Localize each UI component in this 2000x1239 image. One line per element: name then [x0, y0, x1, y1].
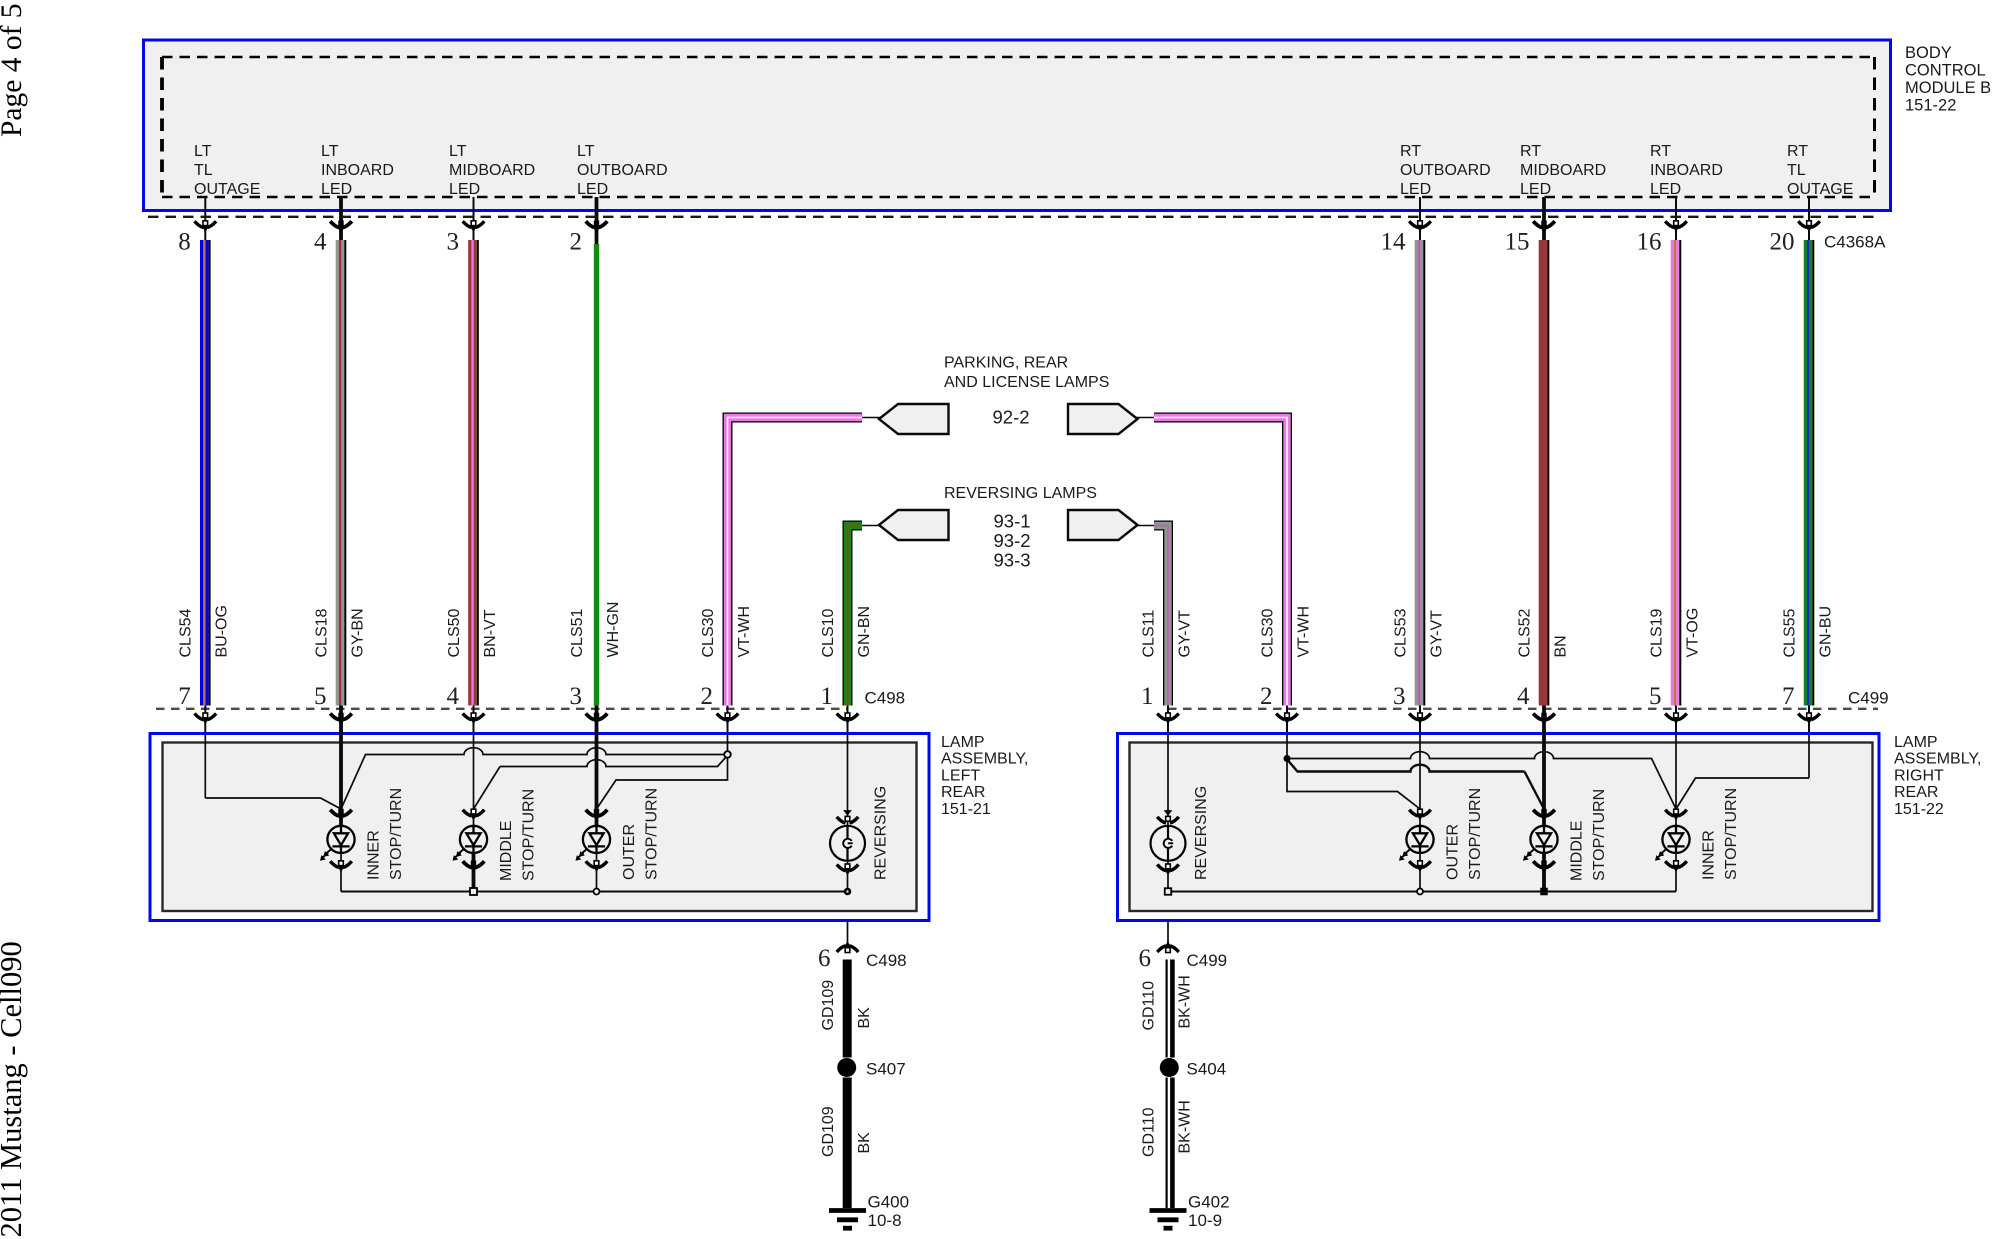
reversing feed (right) [1167, 734, 1169, 826]
connector arrow into lamp assembly x=596.5 [586, 714, 608, 720]
ground bus (right) [1168, 891, 1676, 893]
svg-text:LEFT: LEFT [941, 767, 980, 784]
svg-text:G400: G400 [868, 1193, 910, 1212]
connector arrow below outer LED (right) [1409, 861, 1431, 867]
svg-text:VT-WH: VT-WH [1295, 606, 1312, 658]
svg-text:1: 1 [1141, 683, 1154, 710]
connector arrow into lamp assembly x=1544 [1533, 714, 1555, 720]
ground bus (left) [341, 891, 848, 893]
node middle LED on bus (right) [1540, 888, 1548, 896]
connector arrow pin 6 C498 [837, 946, 859, 952]
svg-text:ASSEMBLY,: ASSEMBLY, [941, 751, 1028, 768]
wire from lamp box to pin 6 C498 [847, 921, 849, 947]
node middle LED on bus (left) [470, 888, 477, 895]
wire CLS10 GN-BN (left, to reversing lamps) [848, 526, 863, 706]
wire lead from BCM at x=596.5 [595, 197, 599, 245]
svg-text:93-3: 93-3 [994, 550, 1031, 571]
outer stop/turn feed (right) [1419, 734, 1421, 826]
svg-text:BN: BN [1552, 635, 1569, 657]
connector arrow into lamp assembly x=1168 [1157, 714, 1179, 720]
svg-text:C4368A: C4368A [1824, 233, 1886, 252]
svg-text:G402: G402 [1188, 1193, 1230, 1212]
connector arrow at inner LED (left) [330, 810, 352, 816]
svg-text:BK: BK [856, 1007, 873, 1029]
svg-text:CLS30: CLS30 [1259, 608, 1276, 657]
parking bus B to middle LED (left) [500, 757, 727, 767]
wire CLS30 VT-WH (right, to parking lamps) [1154, 418, 1287, 706]
svg-text:MIDDLE: MIDDLE [1569, 821, 1586, 881]
svg-text:GD110: GD110 [1140, 981, 1157, 1031]
node: parking feed junction (left) [724, 751, 731, 758]
svg-text:LED: LED [1520, 181, 1551, 198]
svg-text:ASSEMBLY,: ASSEMBLY, [1894, 751, 1981, 768]
connector arrow at outer LED (right) [1409, 810, 1431, 816]
svg-text:STOP/TURN: STOP/TURN [644, 788, 661, 880]
lamp assembly left rear inner box [163, 743, 917, 912]
wire CLS19 VT-OG [1671, 240, 1682, 706]
svg-text:CLS30: CLS30 [700, 608, 717, 657]
connector arrow below reversing bulb (left) [837, 865, 859, 871]
connector arrow into lamp assembly x=847.5 [837, 714, 859, 720]
wire lead into lamp assembly x=1544 [1542, 706, 1546, 735]
wire CLS52 BN [1539, 240, 1550, 706]
svg-text:OUTER: OUTER [621, 824, 638, 880]
wire link to off-page connector 92-2 right [1136, 417, 1154, 419]
connector arrow at BCM pin x=1544 [1533, 221, 1555, 227]
lamp assembly right rear inner box [1130, 743, 1873, 912]
reversing feed (left) [847, 734, 849, 826]
svg-text:CLS11: CLS11 [1140, 610, 1157, 658]
svg-text:151-22: 151-22 [1894, 801, 1944, 818]
svg-text:2: 2 [570, 229, 583, 256]
svg-text:GN-BN: GN-BN [856, 606, 873, 658]
svg-text:OUTBOARD: OUTBOARD [1400, 162, 1491, 179]
svg-text:4: 4 [1517, 683, 1530, 710]
wire lead into lamp assembly x=1420 [1419, 706, 1421, 735]
svg-text:93-2: 93-2 [994, 530, 1031, 551]
middle stop/turn feed (right) [1542, 730, 1546, 826]
wire CLS54 BU-OG [200, 240, 211, 706]
splice S404 [1160, 1058, 1179, 1077]
LED inner stop/turn (left) [321, 826, 355, 859]
svg-text:RT: RT [1520, 143, 1541, 160]
svg-text:Page 4 of 5: Page 4 of 5 [0, 3, 28, 137]
wire lead into lamp assembly x=847.5 [847, 706, 849, 735]
LED middle stop/turn (left) [454, 826, 488, 859]
inner LED cathode to bus (left) [340, 853, 342, 892]
svg-text:REVERSING: REVERSING [873, 786, 890, 880]
svg-text:LED: LED [1400, 181, 1431, 198]
svg-text:C498: C498 [866, 951, 907, 970]
connector arrow into lamp assembly x=341 [330, 714, 352, 720]
svg-text:RIGHT: RIGHT [1894, 767, 1944, 784]
svg-text:LED: LED [321, 181, 352, 198]
svg-text:BN-VT: BN-VT [482, 609, 499, 657]
svg-text:5: 5 [1649, 683, 1662, 710]
svg-text:LED: LED [449, 181, 480, 198]
wire CLS11 GY-VT (right, to reversing lamps) [1154, 526, 1168, 706]
wire link to off-page connector 93 right [1136, 525, 1154, 527]
connector arrow into lamp assembly x=727.5 [717, 714, 739, 720]
svg-text:BU-OG: BU-OG [214, 605, 231, 657]
svg-text:C499: C499 [1187, 951, 1228, 970]
svg-text:OUTAGE: OUTAGE [194, 181, 260, 198]
svg-text:OUTAGE: OUTAGE [1787, 181, 1853, 198]
inner LED cathode to bus (right) [1675, 853, 1677, 892]
svg-text:LT: LT [577, 143, 595, 160]
sense line to inner LED (right) [1676, 778, 1809, 809]
LED outer stop/turn (right) [1400, 826, 1434, 859]
svg-text:VT-OG: VT-OG [1684, 608, 1701, 658]
svg-text:GY-BN: GY-BN [349, 608, 366, 657]
connector arrow below inner LED (left) [330, 861, 352, 867]
wire lead into lamp assembly x=1168 [1167, 706, 1169, 735]
svg-text:151-22: 151-22 [1905, 97, 1956, 115]
wire CLS50 BN-VT [468, 240, 479, 706]
connector arrow above reversing bulb (right) [1164, 810, 1173, 816]
svg-text:RT: RT [1650, 143, 1671, 160]
svg-text:STOP/TURN: STOP/TURN [1723, 788, 1740, 880]
middle LED cathode to bus (right) [1542, 853, 1546, 892]
svg-text:CLS54: CLS54 [178, 608, 195, 657]
wire CLS51 WH-GN [594, 244, 599, 706]
svg-text:INBOARD: INBOARD [321, 162, 394, 179]
parking bus C to outer LED (right) [1287, 761, 1420, 809]
sense line to inner LED (left) [205, 798, 341, 809]
svg-text:LT: LT [194, 143, 212, 160]
bus B diagonal to middle LED (left) [474, 767, 501, 810]
BCM inner dashed border [162, 57, 1876, 197]
wire lead from BCM at x=1809 [1808, 197, 1810, 240]
wire lead into lamp assembly x=341 [339, 706, 343, 735]
svg-text:OUTBOARD: OUTBOARD [577, 162, 668, 179]
svg-text:VT-WH: VT-WH [736, 606, 753, 658]
svg-text:GD110: GD110 [1140, 1107, 1157, 1157]
wire lead from BCM at x=1544 [1542, 197, 1546, 245]
connector arrow into lamp assembly x=1809 [1798, 714, 1820, 720]
node outer LED on bus (left) [594, 889, 600, 895]
svg-text:MIDDLE: MIDDLE [498, 821, 515, 881]
wire GD109 BK (upper) [843, 960, 852, 1058]
LED middle stop/turn (right) [1524, 826, 1558, 859]
svg-text:CLS55: CLS55 [1781, 608, 1798, 657]
svg-text:TL: TL [194, 162, 213, 179]
svg-text:INNER: INNER [1701, 830, 1718, 880]
svg-text:LAMP: LAMP [941, 734, 985, 751]
node reversing on bus (left) [844, 888, 852, 896]
svg-text:STOP/TURN: STOP/TURN [521, 789, 538, 881]
connector arrow at BCM pin x=596.5 [586, 221, 608, 227]
svg-text:PARKING, REAR: PARKING, REAR [944, 355, 1068, 372]
svg-text:STOP/TURN: STOP/TURN [388, 788, 405, 880]
wire from lamp box to pin 6 C499 [1167, 921, 1169, 947]
LED outer stop/turn (left) [577, 826, 611, 859]
svg-text:CLS10: CLS10 [820, 608, 837, 657]
LED inner stop/turn (right) [1656, 826, 1690, 859]
svg-text:REAR: REAR [1894, 784, 1938, 801]
svg-text:C498: C498 [865, 689, 906, 708]
svg-text:3: 3 [1393, 683, 1406, 710]
svg-text:CLS18: CLS18 [313, 608, 330, 657]
wire lead from BCM at x=1420 [1419, 197, 1421, 240]
svg-text:CLS51: CLS51 [569, 608, 586, 657]
svg-text:RT: RT [1787, 143, 1808, 160]
connector arrow at BCM pin x=473.5 [463, 221, 485, 227]
svg-text:INBOARD: INBOARD [1650, 162, 1723, 179]
connector arrow at BCM pin x=1809 [1798, 221, 1820, 227]
svg-text:93-1: 93-1 [994, 511, 1031, 532]
svg-text:5: 5 [314, 683, 327, 710]
connector arrow below inner LED (right) [1665, 861, 1687, 867]
svg-text:CLS52: CLS52 [1516, 608, 1533, 657]
node outer LED on bus (right) [1417, 889, 1423, 895]
connector arrow into lamp assembly x=473.5 [463, 714, 485, 720]
svg-text:STOP/TURN: STOP/TURN [1467, 788, 1484, 880]
svg-text:REVERSING LAMPS: REVERSING LAMPS [944, 485, 1097, 502]
svg-text:BK-WH: BK-WH [1176, 1100, 1193, 1153]
svg-text:RT: RT [1400, 143, 1421, 160]
svg-text:S404: S404 [1187, 1060, 1227, 1079]
ground symbol G400 [829, 1211, 866, 1229]
svg-text:2: 2 [1260, 683, 1273, 710]
svg-text:20: 20 [1770, 229, 1795, 256]
node reversing on bus (right) [1165, 888, 1172, 895]
connector arrow below middle LED (right) [1533, 861, 1555, 867]
outer LED cathode to bus (left) [596, 853, 598, 892]
wire lead into lamp assembly x=1809 [1808, 706, 1810, 735]
svg-text:6: 6 [1139, 945, 1152, 972]
inner stop/turn feed (left) [339, 730, 343, 826]
svg-text:STOP/TURN: STOP/TURN [1591, 789, 1608, 881]
svg-text:TL: TL [1787, 162, 1806, 179]
svg-text:REAR: REAR [941, 784, 985, 801]
wire lead from BCM at x=205.3 [204, 197, 206, 240]
wire CLS30 VT-WH (left, to parking lamps) [728, 418, 863, 706]
parking bus A to inner LED (left) [341, 748, 726, 809]
connector C498 dashed line [156, 708, 848, 710]
TL outage sense wire (left) [204, 735, 206, 798]
svg-text:92-2: 92-2 [993, 406, 1030, 427]
svg-text:CLS19: CLS19 [1648, 608, 1665, 657]
svg-text:1: 1 [821, 683, 834, 710]
svg-text:REVERSING: REVERSING [1193, 786, 1210, 880]
connector arrow below outer LED (left) [586, 861, 608, 867]
svg-text:2011 Mustang - Cell090: 2011 Mustang - Cell090 [0, 941, 28, 1237]
connector arrow at middle LED (right) [1533, 810, 1555, 816]
svg-text:OUTER: OUTER [1445, 824, 1462, 880]
connector arrow at inner LED (right) [1665, 810, 1687, 816]
bus B diagonal to middle LED (right) [1525, 772, 1545, 810]
wire CLS53 GY-VT [1415, 240, 1426, 706]
svg-text:LT: LT [449, 143, 467, 160]
wire link to off-page connector 93 left [862, 525, 880, 527]
off-page connector pentagon (parking, left) [879, 404, 949, 434]
parking bus C to outer LED (left) [597, 757, 728, 809]
svg-text:10-9: 10-9 [1188, 1211, 1222, 1230]
svg-text:CLS53: CLS53 [1392, 608, 1409, 657]
wire lead into lamp assembly x=596.5 [595, 706, 599, 735]
connector arrow at BCM pin x=1676 [1665, 221, 1687, 227]
outer LED cathode to bus (right) [1419, 853, 1421, 892]
svg-text:151-21: 151-21 [941, 801, 991, 818]
middle stop/turn feed (left) [473, 734, 475, 826]
off-page connector pentagon (reversing, left) [879, 510, 949, 540]
svg-text:15: 15 [1505, 229, 1530, 256]
outer stop/turn feed (left) [595, 730, 599, 826]
BCM module box (Body Control Module B) [144, 40, 1891, 211]
connector arrow at middle LED (left) [463, 810, 485, 816]
svg-text:LED: LED [577, 181, 608, 198]
wire CLS18 GY-BN [336, 240, 347, 706]
reversing lamp bulb (left) [830, 826, 865, 861]
svg-text:14: 14 [1381, 229, 1407, 256]
connector arrow below reversing bulb (right) [1157, 865, 1179, 871]
wire GD110 BK-WH (upper) [1166, 960, 1175, 1058]
svg-text:BK: BK [856, 1132, 873, 1154]
svg-text:MIDBOARD: MIDBOARD [449, 162, 535, 179]
connector arrow at BCM pin x=341 [330, 221, 352, 227]
connector arrow at BCM pin x=1420 [1409, 221, 1431, 227]
svg-text:6: 6 [818, 945, 831, 972]
connector arrow into lamp assembly x=1676 [1665, 714, 1687, 720]
svg-text:INNER: INNER [366, 830, 383, 880]
connector arrow above reversing bulb (left) [843, 810, 852, 816]
connector C4368A dashed line [148, 216, 1878, 218]
svg-text:4: 4 [314, 229, 327, 256]
wire lead from BCM at x=341 [339, 197, 343, 245]
svg-text:GY-VT: GY-VT [1428, 610, 1445, 658]
svg-text:3: 3 [570, 683, 583, 710]
reversing bulb to bus (right) [1167, 861, 1169, 892]
connector arrow at BCM pin x=205.3 [195, 221, 217, 227]
svg-text:BK-WH: BK-WH [1176, 975, 1193, 1028]
TL outage sense wire (right) [1808, 735, 1810, 778]
svg-text:LT: LT [321, 143, 339, 160]
connector arrow into lamp assembly x=1420 [1409, 714, 1431, 720]
svg-text:3: 3 [447, 229, 460, 256]
ground symbol G402 [1150, 1211, 1187, 1229]
wire lead from BCM at x=473.5 [473, 197, 475, 240]
parking bus B to middle LED (right) [1288, 761, 1525, 772]
middle LED cathode to bus (left) [472, 853, 476, 892]
svg-text:8: 8 [178, 229, 191, 256]
lamp assembly right rear box [1118, 734, 1880, 921]
svg-text:S407: S407 [866, 1060, 906, 1079]
off-page connector pentagon (reversing, right) [1068, 510, 1138, 540]
connector arrow into lamp assembly x=205.3 [195, 714, 217, 720]
wire GD110 BK-WH (lower) [1166, 1078, 1175, 1209]
connector arrow pin 6 C499 [1157, 946, 1179, 952]
connector arrow into lamp assembly x=1287 [1276, 714, 1298, 720]
svg-text:MODULE B: MODULE B [1905, 79, 1991, 97]
reversing lamp bulb (right) [1151, 826, 1186, 861]
wire link to off-page connector 92-2 left [862, 417, 880, 419]
wire CLS55 GN-BU [1804, 240, 1815, 706]
svg-text:LAMP: LAMP [1894, 734, 1938, 751]
svg-text:10-8: 10-8 [868, 1211, 902, 1230]
svg-text:2: 2 [701, 683, 714, 710]
svg-text:BODY: BODY [1905, 44, 1952, 62]
reversing bulb to bus (left) [847, 861, 849, 892]
node: parking feed junction (right) [1284, 755, 1291, 762]
parking feed drop to node (right) [1286, 734, 1288, 759]
off-page connector pentagon (parking, right) [1068, 404, 1138, 434]
parking feed drop to node (left) [727, 734, 729, 755]
svg-text:LED: LED [1650, 181, 1681, 198]
connector arrow at outer LED (left) [586, 810, 608, 816]
wire lead into lamp assembly x=205.3 [204, 706, 206, 735]
svg-text:16: 16 [1637, 229, 1662, 256]
wire lead into lamp assembly x=1676 [1675, 706, 1677, 735]
svg-text:GD109: GD109 [820, 980, 837, 1031]
svg-text:MIDBOARD: MIDBOARD [1520, 162, 1606, 179]
wire GD109 BK (lower) [843, 1078, 852, 1209]
svg-text:GN-BU: GN-BU [1817, 606, 1834, 658]
svg-text:GY-VT: GY-VT [1176, 610, 1193, 658]
svg-text:WH-GN: WH-GN [605, 602, 622, 658]
connector arrow below middle LED (left) [463, 861, 485, 867]
wire lead from BCM at x=1676 [1675, 197, 1677, 240]
inner stop/turn feed (right) [1675, 734, 1677, 826]
svg-text:7: 7 [178, 683, 191, 710]
svg-text:GD109: GD109 [820, 1106, 837, 1157]
svg-text:AND LICENSE LAMPS: AND LICENSE LAMPS [944, 374, 1109, 391]
svg-text:7: 7 [1782, 683, 1795, 710]
lamp assembly left rear box [150, 734, 929, 921]
wire lead into lamp assembly x=727.5 [727, 706, 729, 735]
connector C499 dashed line [1168, 708, 1878, 710]
svg-text:4: 4 [447, 683, 460, 710]
wire lead into lamp assembly x=473.5 [473, 706, 475, 735]
svg-text:CLS50: CLS50 [446, 608, 463, 657]
wire lead into lamp assembly x=1287 [1286, 706, 1288, 735]
parking bus A to inner LED (right) [1288, 752, 1676, 809]
svg-text:C499: C499 [1848, 689, 1889, 708]
svg-text:CONTROL: CONTROL [1905, 62, 1986, 80]
splice S407 [837, 1058, 856, 1077]
